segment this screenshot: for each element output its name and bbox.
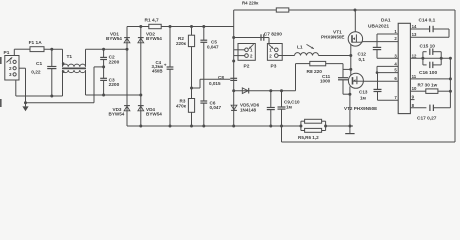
svg-text:14: 14	[412, 24, 417, 29]
svg-text:P3: P3	[271, 64, 277, 70]
svg-text:C12: C12	[358, 52, 367, 57]
svg-text:11: 11	[412, 74, 417, 79]
svg-text:L1: L1	[297, 45, 303, 51]
svg-text:+: +	[164, 64, 167, 69]
svg-text:R8 220: R8 220	[307, 69, 323, 75]
svg-text:13: 13	[412, 32, 417, 37]
svg-text:C1: C1	[36, 61, 42, 67]
svg-text:C14 0,1: C14 0,1	[419, 17, 436, 23]
svg-text:1000: 1000	[320, 78, 331, 83]
svg-text:0,1: 0,1	[359, 57, 366, 62]
svg-text:DA1: DA1	[381, 17, 391, 23]
svg-text:0,015: 0,015	[209, 81, 221, 86]
svg-text:0,047: 0,047	[207, 45, 219, 50]
svg-text:BYW54: BYW54	[109, 112, 125, 117]
svg-text:0,047: 0,047	[210, 105, 222, 110]
svg-text:F1 1A: F1 1A	[29, 40, 43, 46]
svg-text:T1: T1	[67, 54, 73, 60]
svg-text:450В: 450В	[152, 69, 163, 74]
svg-text:1м: 1м	[286, 104, 293, 109]
svg-text:C8: C8	[218, 75, 224, 80]
svg-text:VT2 PHX9N50E: VT2 PHX9N50E	[344, 106, 377, 111]
svg-text:BYW54: BYW54	[106, 36, 122, 41]
svg-text:R5,R6 1,2: R5,R6 1,2	[298, 135, 319, 140]
svg-text:10: 10	[412, 86, 417, 91]
svg-text:R4 220к: R4 220к	[242, 1, 259, 6]
svg-text:470к: 470к	[176, 104, 187, 109]
svg-text:C16 100: C16 100	[419, 70, 437, 76]
svg-text:C17 0,27: C17 0,27	[417, 115, 437, 121]
svg-text:12: 12	[412, 53, 417, 58]
svg-text:C13: C13	[359, 90, 368, 95]
svg-text:2200: 2200	[109, 82, 120, 88]
svg-text:C7 8200: C7 8200	[264, 31, 282, 37]
svg-text:P2: P2	[244, 64, 250, 70]
svg-text:BYW54: BYW54	[146, 36, 162, 41]
svg-text:1м: 1м	[360, 96, 367, 101]
svg-text:220к: 220к	[176, 41, 187, 46]
svg-text:R1 4,7: R1 4,7	[145, 18, 159, 24]
svg-text:0,22: 0,22	[31, 69, 41, 75]
svg-text:PHX9N50E: PHX9N50E	[321, 34, 345, 39]
svg-text:P1: P1	[4, 50, 10, 56]
svg-text:R7 30 1w: R7 30 1w	[418, 82, 438, 87]
svg-text:2200: 2200	[109, 60, 120, 66]
svg-text:BYW54: BYW54	[146, 112, 162, 117]
svg-text:UBA2021: UBA2021	[368, 24, 389, 30]
svg-text:1N4148: 1N4148	[240, 108, 257, 113]
svg-text:C15 10: C15 10	[420, 43, 436, 49]
